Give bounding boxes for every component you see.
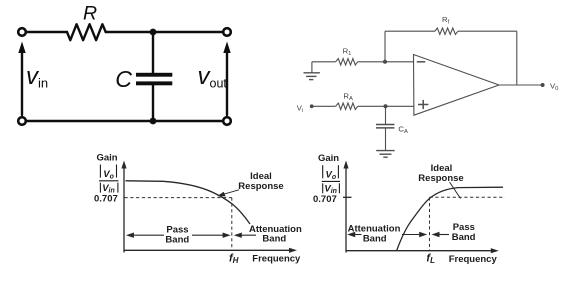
svg-text:fH: fH [229,252,239,265]
svg-text:Vo: Vo [103,169,114,181]
y-axis [123,164,125,253]
svg-text:Band: Band [262,233,286,244]
svg-text:Band: Band [165,235,189,246]
node dot inverting input [383,60,387,64]
wire feedback right vertical [516,31,518,85]
op-amp U1 triangle [414,55,500,116]
0.707 tick [343,196,352,198]
y-axis [345,164,347,253]
dashed fL line [429,197,431,250]
response curve [397,187,504,251]
svg-text:Gain: Gain [318,153,339,164]
dashed 0.707 line [125,197,232,199]
attenuation band arrow right [402,234,423,236]
terminal bottom-right [223,117,231,125]
svg-text:V0: V0 [550,81,558,92]
svg-text:0.707: 0.707 [94,194,118,205]
x-axis arrowhead [491,248,499,253]
svg-text:0.707: 0.707 [313,194,337,205]
resistor R1 [336,59,358,65]
wire capacitor top lead [152,32,154,73]
svg-text:Rf: Rf [442,15,450,26]
pass band arrow [434,234,449,236]
svg-text:Band: Band [363,234,387,245]
svg-text:fL: fL [426,253,435,266]
ground stub (R1 side) [311,62,313,73]
capacitor CA top plate [376,124,395,126]
terminal top-left [18,28,26,36]
dashed 0.707 line [430,196,506,198]
svg-text:Frequency: Frequency [449,254,498,265]
ground symbol (CA side) [376,151,394,158]
wire bottom [27,120,223,122]
svg-text:vout: vout [198,63,228,91]
wire feedback top right segment [458,30,517,32]
node dot non-inverting input [384,104,388,108]
wire: resistor to output terminal [106,31,223,33]
terminal bottom-left [18,117,26,125]
dashed fH line [231,198,233,250]
wire CA top lead [385,106,387,124]
terminal top-right [223,28,231,36]
wire feedback tap vertical [384,31,386,62]
x-axis arrowhead [289,248,297,253]
x-axis [346,250,494,252]
capacitor C plates [136,73,172,86]
attenuation band arrow left [349,234,361,236]
node dot Vi [310,104,314,108]
op-amp minus sign [417,61,425,63]
svg-text:C: C [115,66,132,92]
resistor R [67,24,106,40]
svg-text:Band: Band [452,232,476,243]
pointer arrow to curve knee [222,190,240,195]
wire ground to R1 [312,61,336,63]
arrow line v_in [21,50,23,115]
capacitor CA bottom plate [376,127,395,129]
arrow line v_out [226,50,228,115]
svg-text:Response: Response [238,181,283,192]
response curve [126,181,251,224]
pointer line to curve knee [450,182,461,198]
svg-text:vin: vin [26,63,48,91]
svg-text:CA: CA [398,124,408,135]
wire capacitor bottom lead [152,85,154,121]
node dot output [541,83,545,87]
wire top-left: input terminal to resistor [27,31,68,33]
svg-text:Gain: Gain [97,152,118,163]
arrowhead v_in [18,42,25,54]
wire R1 to op-amp inverting input [358,61,414,63]
svg-text:R1: R1 [343,47,352,58]
attenuation band arrow [236,234,256,236]
wire feedback top left segment [385,30,435,32]
wire RA to op-amp non-inverting input [358,105,414,107]
junction node bottom [150,118,157,125]
op-amp plus sign [418,100,428,109]
svg-text:Vi: Vi [297,103,303,114]
arrowhead v_out [223,42,230,54]
svg-text:R: R [83,3,97,25]
wire output [499,84,543,86]
y-axis arrowhead [343,161,348,169]
x-axis [124,249,292,251]
y-axis arrowhead [121,161,126,169]
wire CA bottom lead [385,128,387,150]
ground symbol (R1 side) [304,73,320,80]
pass band arrow right [192,234,229,236]
svg-text:Frequency: Frequency [252,253,301,264]
junction node top [150,29,157,36]
gain fraction bars [99,165,119,193]
gain fraction bars [322,165,340,193]
pass band arrow left [128,234,164,236]
svg-text:Vo: Vo [326,170,337,182]
resistor RA [336,103,358,109]
svg-text:Response: Response [418,173,463,184]
resistor Rf [435,28,458,34]
svg-text:RA: RA [343,91,353,102]
wire Vi to RA [312,105,336,107]
